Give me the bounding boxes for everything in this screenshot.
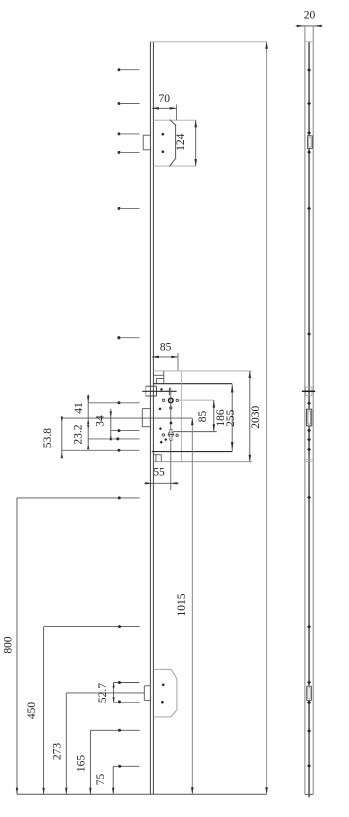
svg-text:55: 55: [153, 466, 165, 478]
svg-text:20: 20: [304, 10, 316, 22]
svg-text:70: 70: [158, 93, 170, 105]
svg-text:34: 34: [95, 415, 107, 427]
svg-text:2030: 2030: [250, 406, 262, 429]
svg-text:41: 41: [73, 402, 85, 414]
svg-text:255: 255: [225, 409, 237, 427]
svg-text:124: 124: [175, 133, 187, 151]
svg-text:165: 165: [76, 755, 88, 773]
svg-text:1015: 1015: [176, 593, 188, 616]
svg-text:85: 85: [197, 411, 209, 423]
svg-text:273: 273: [52, 743, 64, 761]
svg-text:75: 75: [95, 774, 107, 786]
svg-text:800: 800: [2, 636, 14, 654]
svg-text:450: 450: [26, 702, 38, 720]
svg-text:23.2: 23.2: [73, 424, 85, 444]
svg-text:53.8: 53.8: [42, 428, 54, 448]
svg-text:85: 85: [160, 342, 172, 354]
svg-text:52.7: 52.7: [97, 683, 109, 703]
